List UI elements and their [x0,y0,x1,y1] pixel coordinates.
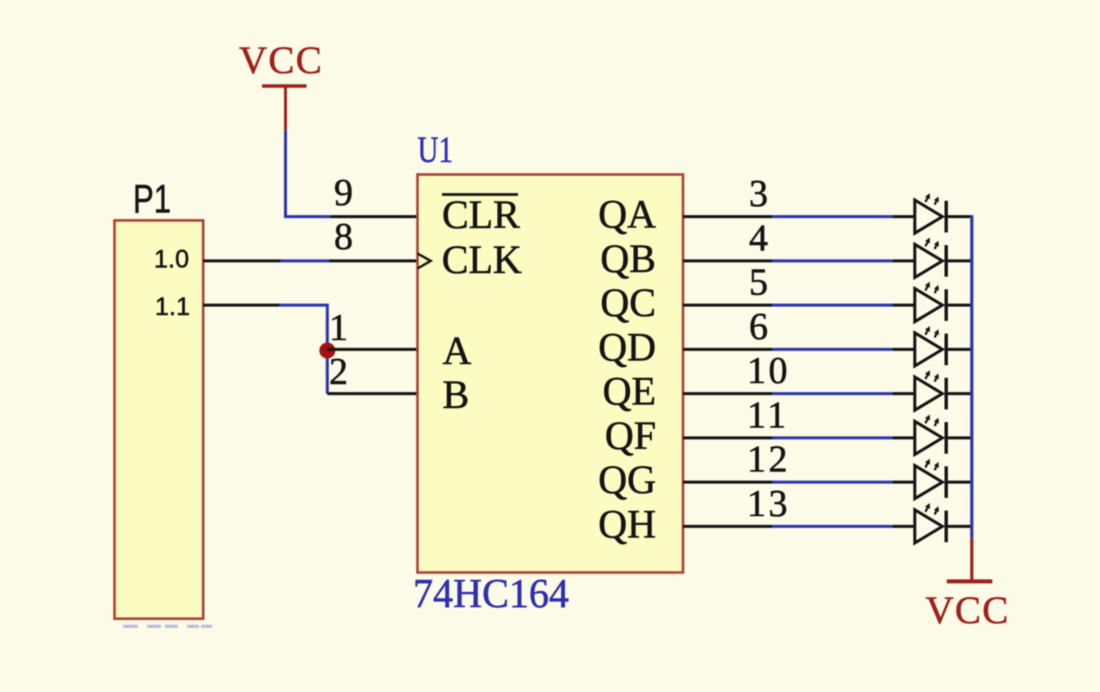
wire: LED D8 cathode lead (black) [948,525,971,528]
svg-text:6: 6 [749,306,768,348]
net bus: LED cathodes to VCC (blue) [970,215,973,538]
LED D4 [892,326,946,366]
wire: net to LED D4 (blue) [772,348,892,351]
LED D8 [892,503,946,543]
svg-text:10: 10 [747,350,790,392]
svg-text:P1: P1 [133,178,171,222]
wire: LED D3 cathode lead (black) [948,304,971,307]
svg-text:12: 12 [747,439,790,481]
wire: pin 2 to U1 B (black) [327,392,417,395]
svg-text:1.1: 1.1 [155,293,190,321]
wire: net to LED D2 (blue) [772,259,892,262]
junction dot [319,343,335,359]
wire: P1 1.0 to CLK (black) [203,259,281,262]
LED D6 [892,415,946,455]
svg-text:3: 3 [749,173,768,215]
svg-text:9: 9 [334,172,353,214]
svg-text:VCC: VCC [239,39,323,82]
svg-text:U1: U1 [418,130,454,171]
wire: U1 pin 4 stub (black) [683,259,772,262]
IC U1 body [418,175,684,573]
connector P1 body [115,220,204,618]
wire: U1 pin 10 stub (black) [683,392,772,395]
wire: CLK net middle segment (blue) [281,259,329,262]
wire: pin 8 to U1 CLK (black) [329,259,418,262]
svg-text:5: 5 [749,262,768,304]
wire: VCC down to CLR net (blue) [286,130,331,216]
wire: LED D1 cathode lead (black) [948,215,971,218]
wire: pin 1 to U1 A (black) [327,348,417,351]
svg-text:1: 1 [329,307,348,349]
svg-text:QA: QA [598,192,656,237]
wire: net to LED D5 (blue) [772,392,892,395]
svg-text:QC: QC [600,280,656,325]
wire: net to LED D1 (blue) [772,215,892,218]
wire: pin 9 to U1 CLR (black) [330,215,417,218]
power symbol VCC (top) [239,39,323,130]
wire: net to LED D3 (blue) [772,304,892,307]
wire: bus to VCC bar (dark red) [970,538,973,580]
svg-text:4: 4 [749,217,768,259]
wire: LED D5 cathode lead (black) [948,392,971,395]
wire: net to LED D8 (blue) [772,525,892,528]
svg-text:QB: QB [600,236,656,281]
svg-text:QH: QH [598,501,656,546]
power symbol VCC (bottom) [925,581,1009,631]
wire: U1 pin 12 stub (black) [683,481,772,484]
LED D1 [892,193,946,233]
wire: U1 pin 6 stub (black) [683,348,772,351]
LED D7 [892,459,946,499]
svg-text:13: 13 [747,483,790,525]
wire: LED D6 cathode lead (black) [948,436,971,439]
LED D2 [892,238,946,278]
svg-text:QG: QG [598,457,656,502]
svg-text:1.0: 1.0 [154,246,189,274]
wire: 1.1 net elbow down (blue) [280,305,328,394]
svg-text:11: 11 [747,394,789,436]
svg-text:CLR: CLR [442,192,520,237]
remnant text below P1 [123,625,212,628]
svg-text:QE: QE [603,369,656,414]
wire: P1 1.1 horizontal (black) [203,304,279,307]
svg-text:VCC: VCC [925,589,1009,632]
svg-text:8: 8 [334,216,353,258]
svg-text:B: B [443,372,470,417]
wire: net to LED D7 (blue) [772,481,892,484]
LED D5 [892,370,946,410]
svg-text:74HC164: 74HC164 [413,570,569,616]
svg-text:CLK: CLK [442,237,522,282]
wire: LED D2 cathode lead (black) [948,259,971,262]
svg-text:A: A [443,328,472,373]
svg-text:QD: QD [598,324,656,369]
wire: U1 pin 11 stub (black) [683,436,772,439]
clock input chevron [418,254,431,269]
wire: U1 pin 5 stub (black) [683,304,772,307]
LED D3 [892,282,946,322]
wire: LED D7 cathode lead (black) [948,481,971,484]
wire: U1 pin 3 stub (black) [683,215,772,218]
wire: LED D4 cathode lead (black) [948,348,971,351]
svg-text:2: 2 [329,351,348,393]
wire: net to LED D6 (blue) [772,436,892,439]
wire: U1 pin 13 stub (black) [683,525,772,528]
CLR overline [442,193,518,196]
svg-text:QF: QF [605,413,656,458]
